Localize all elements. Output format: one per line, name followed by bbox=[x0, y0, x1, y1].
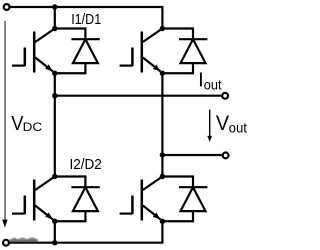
wire: left leg top drop bbox=[54, 7, 56, 29]
terminal: lower output (open circle) bbox=[223, 153, 229, 159]
wire: upper output lead to Iout terminal bbox=[55, 95, 222, 97]
wire: top DC+ rail bbox=[10, 7, 162, 29]
diode D4 (antiparallel freewheeling) bbox=[162, 177, 207, 222]
node: collector of I1 bbox=[52, 26, 57, 31]
transistor I1 bbox=[12, 29, 55, 73]
svg-text:I2/D2: I2/D2 bbox=[70, 157, 102, 173]
node: collector of I3 (top right) bbox=[160, 26, 165, 31]
svg-text:out: out bbox=[229, 120, 248, 135]
watermark smudge bottom-left bbox=[10, 238, 38, 242]
wire: left leg midpoint bus bbox=[54, 73, 56, 176]
junction: right midpoint to output bbox=[160, 152, 165, 157]
diode D2 (antiparallel freewheeling) bbox=[55, 177, 100, 222]
arrow: VDC voltage direction (down) bbox=[4, 21, 6, 221]
wire: lower output lead to Vout terminal bbox=[162, 154, 221, 156]
terminal: DC- input (open circle) bbox=[3, 240, 9, 246]
transistor I4 (bottom right) bbox=[120, 177, 163, 221]
terminal: DC+ input (open circle) bbox=[4, 4, 10, 10]
diode D1 (antiparallel freewheeling) bbox=[55, 29, 100, 74]
svg-text:I1/D1: I1/D1 bbox=[71, 12, 101, 28]
svg-text:DC: DC bbox=[23, 120, 43, 134]
junction: top rail / left leg bbox=[52, 4, 57, 9]
node: emitter of I4 (bottom right) bbox=[160, 219, 165, 224]
svg-text:out: out bbox=[204, 78, 222, 93]
diode D3 (antiparallel freewheeling) bbox=[162, 29, 207, 74]
terminal: upper output (open circle) bbox=[222, 93, 228, 99]
junction: bottom rail / left leg bbox=[52, 240, 57, 245]
wire: bottom DC- rail bbox=[9, 221, 162, 242]
wire: right leg midpoint bus bbox=[161, 73, 163, 176]
node: emitter of I2 bbox=[52, 219, 57, 224]
transistor I3 (top right) bbox=[120, 29, 163, 73]
junction: left midpoint to output bbox=[52, 93, 57, 98]
arrow: Vout voltage direction (down) bbox=[209, 110, 211, 137]
node: collector of I2 bbox=[52, 174, 57, 179]
node: emitter of I1 bbox=[52, 71, 57, 76]
node: collector of I4 (bottom right) bbox=[160, 174, 165, 179]
transistor I2 bbox=[12, 177, 55, 221]
wire: left leg bottom drop bbox=[54, 221, 56, 242]
node: emitter of I3 (top right) bbox=[160, 71, 165, 76]
